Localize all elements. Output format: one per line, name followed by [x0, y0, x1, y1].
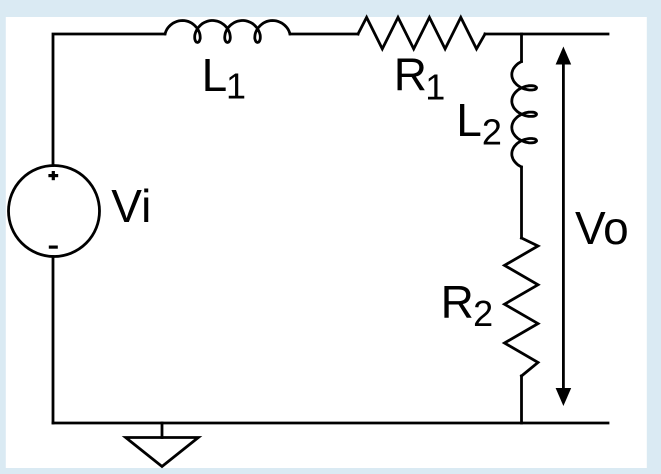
- svg-text:R: R: [441, 276, 474, 328]
- svg-text:Vi: Vi: [111, 180, 151, 232]
- inductor L2: [512, 62, 537, 168]
- plus sign inside Vi: [48, 171, 58, 180]
- minus sign inside Vi: [49, 246, 58, 249]
- wire: bottom ground rail: [53, 422, 608, 425]
- svg-text:2: 2: [473, 293, 493, 334]
- wire: R2 to bottom rail: [520, 376, 523, 423]
- wire: source bottom down to bottom rail: [52, 257, 55, 424]
- wire: top-left corner, source top to L1: [53, 34, 165, 166]
- svg-text:R: R: [394, 48, 427, 100]
- ground triangle: [126, 438, 199, 467]
- svg-text:L: L: [456, 94, 482, 146]
- Vo arrowhead bottom: [556, 388, 572, 406]
- Vo arrowhead top: [556, 47, 572, 65]
- inductor L1: [165, 21, 290, 43]
- svg-text:1: 1: [425, 66, 445, 107]
- svg-text:2: 2: [482, 111, 502, 152]
- ground stem: [161, 423, 164, 438]
- wire: node B down to L2: [520, 34, 523, 62]
- svg-text:L: L: [202, 49, 228, 101]
- wire: L2 to R2: [520, 167, 523, 238]
- voltage source Vi circle: [9, 166, 100, 257]
- wire: L1 to R1: [290, 33, 358, 36]
- resistor R2: [505, 238, 539, 376]
- svg-text:1: 1: [226, 66, 246, 107]
- svg-text:Vo: Vo: [575, 202, 629, 254]
- Vo arrow shaft: [562, 60, 565, 390]
- wire: R1 past node B to right end: [485, 33, 608, 36]
- resistor R1: [358, 17, 485, 49]
